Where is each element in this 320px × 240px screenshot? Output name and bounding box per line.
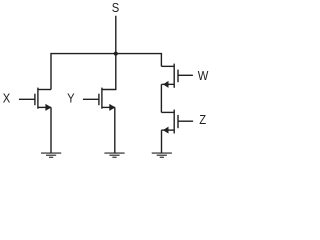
svg-text:W: W [198, 68, 209, 83]
svg-text:Y: Y [67, 91, 74, 106]
svg-text:X: X [3, 91, 10, 106]
svg-text:Z: Z [199, 112, 206, 127]
svg-text:S: S [112, 0, 119, 15]
